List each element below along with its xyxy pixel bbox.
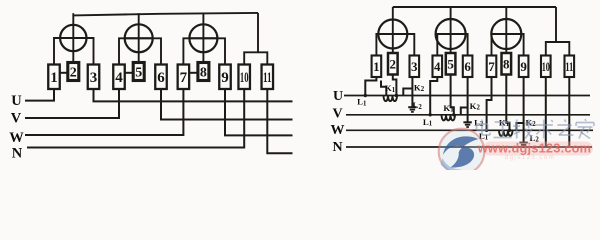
wire terminal 7 to W line tap: [487, 77, 492, 130]
watermark glyph jia: [576, 119, 594, 139]
wire right current coil arm 1: [376, 34, 414, 57]
U phase line (right): [344, 95, 590, 97]
terminal 10 (left meter): [238, 65, 250, 90]
wire left current coil arm 1: [54, 38, 94, 66]
wire right element 3 vertical (bus to terminal 8): [505, 7, 507, 54]
terminal 8 (right meter): [502, 53, 512, 75]
terminal 1 (left meter): [48, 65, 60, 90]
meter element M2 (right): [436, 19, 466, 49]
svg-text:W: W: [331, 123, 345, 138]
svg-text:4: 4: [434, 59, 441, 74]
svg-text:10: 10: [240, 70, 249, 86]
wire right element 2 vertical (bus to terminal 5): [450, 7, 452, 54]
terminal 9 (left meter): [219, 65, 231, 90]
svg-text:N: N: [12, 146, 23, 162]
svg-text:V: V: [332, 106, 342, 121]
svg-text:9: 9: [520, 59, 527, 74]
terminal 9 (right meter): [519, 56, 529, 78]
W phase line (right): [346, 129, 593, 131]
watermark url background: [483, 142, 593, 156]
terminal 3 (right meter): [410, 56, 420, 78]
svg-text:1: 1: [373, 59, 380, 74]
wire N neutral in (left): [27, 89, 244, 148]
watermark logo circle: [439, 129, 485, 175]
meter element M1 (left): [60, 25, 86, 51]
wire terminal 1 branch to CT1 K1 end: [381, 81, 386, 96]
wire terminal 3 to ground (CT1 K2): [411, 77, 413, 107]
wire left bus T to terminals 10-11: [244, 52, 267, 64]
terminal 3 (left meter): [88, 65, 100, 90]
terminal 7 (left meter): [178, 65, 190, 90]
wire right element 1 vertical (bus to terminal 2): [392, 7, 394, 54]
svg-text:11: 11: [263, 70, 272, 86]
svg-text:3: 3: [90, 70, 98, 86]
wire CT1 K2 bracket: [403, 89, 412, 96]
svg-text:U: U: [11, 93, 22, 109]
svg-text:7: 7: [488, 59, 495, 74]
V phase line (right): [346, 114, 590, 116]
wire terminal 5 to V line: [451, 75, 454, 115]
wire left top bus: [73, 13, 258, 16]
wire terminal 1 to U line tap: [365, 77, 376, 96]
terminal 10 (right meter): [541, 56, 551, 78]
wire right top bus: [393, 6, 556, 8]
voltage link terminals 4-5: [125, 72, 133, 74]
watermark glyph dian: [477, 120, 491, 136]
svg-text:8: 8: [503, 56, 510, 71]
terminal 5 (right meter): [446, 53, 456, 75]
wire terminal 9 to ground (CT3 K2): [523, 77, 525, 142]
junction dot terminal 8 tap on W line: [508, 129, 511, 132]
junction dot L1 on U line: [364, 94, 367, 97]
svg-text:4: 4: [115, 70, 123, 86]
wire left element 1 vertical (bus to terminal 2): [72, 13, 74, 63]
wire terminal 6 to ground (CT2 K2): [467, 77, 469, 122]
wire V phase out from terminal 6: [161, 89, 293, 120]
meter element M3 (left): [189, 24, 217, 52]
terminal 2 (right meter): [388, 53, 398, 75]
wire left bus right drop: [257, 13, 259, 52]
svg-text:1: 1: [50, 70, 58, 86]
CT3 secondary coil on W line: [499, 130, 513, 136]
svg-text:U: U: [333, 89, 343, 104]
wire terminal 2 to U line: [393, 75, 397, 96]
svg-text:5: 5: [135, 66, 142, 81]
wire W phase in (left): [25, 89, 183, 135]
terminal 7 (right meter): [487, 56, 497, 78]
voltage link terminals 7-8: [189, 72, 197, 74]
svg-text:W: W: [9, 130, 24, 146]
wire terminal 10 to N line: [545, 77, 547, 147]
svg-text:2: 2: [390, 56, 397, 71]
terminal 5 (left meter): [133, 63, 144, 81]
svg-text:K2: K2: [414, 82, 425, 93]
meter element M3 (right): [491, 19, 521, 49]
svg-text:L2: L2: [413, 100, 423, 111]
wire terminal 4 to V line tap: [430, 77, 437, 115]
svg-text:L1: L1: [423, 117, 433, 128]
junction dot terminal 5 tap on V line: [452, 113, 455, 116]
terminal 11 (right meter): [565, 56, 575, 78]
wire CT2 K2 bracket: [461, 108, 468, 115]
wire V phase in (left): [25, 89, 119, 118]
ground symbol CT2: [463, 122, 471, 127]
wire N neutral out from terminal 11: [267, 89, 292, 153]
wire left element 2 vertical (bus to terminal 5): [138, 13, 140, 63]
svg-text:6: 6: [464, 59, 471, 74]
wire CT3 K2 bracket: [517, 123, 524, 130]
svg-text:K1: K1: [443, 103, 454, 114]
voltage link terminals 1-2: [60, 72, 68, 74]
terminal 4 (left meter): [113, 65, 125, 90]
terminal 11 (left meter): [262, 65, 274, 90]
N neutral line (right): [346, 146, 592, 148]
svg-text:7: 7: [180, 70, 188, 86]
meter element M1 (right): [378, 20, 407, 49]
wire right bus T to terminals 10-11: [546, 42, 570, 57]
ground symbol CT1: [408, 107, 416, 112]
junction dot L1 on W line: [485, 129, 488, 132]
svg-text:2: 2: [70, 66, 77, 81]
terminal 2 (left meter): [68, 63, 79, 81]
svg-text:N: N: [332, 140, 342, 155]
wire U phase in (left): [25, 89, 54, 101]
wire right current coil arm 2: [437, 34, 467, 57]
watermark glyph zhi: [557, 120, 573, 136]
CT2 secondary coil on V line: [442, 115, 456, 121]
wire left current coil arm 3: [183, 38, 225, 65]
wire left current coil arm 2: [119, 38, 161, 65]
watermark glyph shu: [535, 120, 553, 139]
watermark glyph gong: [494, 122, 512, 138]
wire right bus right drop: [555, 7, 557, 42]
svg-text:www.dgjs123.com: www.dgjs123.com: [477, 141, 591, 156]
svg-text:5: 5: [447, 56, 454, 71]
wire left element 3 vertical (bus to terminal 8): [202, 13, 204, 63]
wire terminal 11 to N line: [568, 77, 570, 147]
svg-text:11: 11: [565, 59, 573, 74]
wire W phase out from terminal 9: [225, 89, 293, 135]
svg-text:9: 9: [221, 70, 229, 86]
terminal 1 (right meter): [372, 56, 382, 78]
svg-text:8: 8: [200, 66, 207, 81]
CT1 secondary coil on U line: [384, 96, 398, 102]
svg-text:6: 6: [157, 70, 165, 86]
terminal 6 (left meter): [155, 65, 167, 90]
terminal 6 (right meter): [463, 56, 473, 78]
svg-text:K1: K1: [385, 83, 396, 94]
ground symbol CT3: [519, 143, 527, 148]
wire right current coil arm 3: [492, 34, 524, 57]
junction dot terminal 2 tap on U line: [395, 94, 398, 97]
wire terminal 8 to W line: [506, 75, 509, 131]
terminal 8 (left meter): [198, 63, 209, 81]
junction dot L1 on V line: [429, 113, 432, 116]
svg-text:L1: L1: [357, 97, 367, 108]
svg-text:dgjs123.com: dgjs123.com: [505, 155, 556, 161]
svg-text:V: V: [11, 110, 22, 126]
wire U phase out from terminal 3: [94, 89, 293, 101]
watermark glyph ji: [513, 120, 533, 139]
svg-text:3: 3: [411, 59, 418, 74]
svg-text:10: 10: [542, 59, 550, 74]
meter element M2 (left): [125, 24, 153, 52]
terminal 4 (right meter): [433, 56, 443, 78]
svg-text:K2: K2: [470, 101, 481, 112]
